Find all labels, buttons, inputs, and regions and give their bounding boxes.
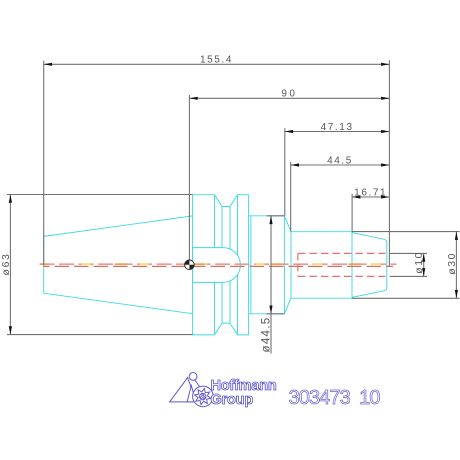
svg-text:16.71: 16.71 [354, 187, 387, 198]
svg-text:ø10: ø10 [413, 251, 425, 274]
svg-text:ø63: ø63 [0, 253, 12, 276]
svg-text:44.5: 44.5 [327, 155, 353, 166]
svg-text:ø30: ø30 [446, 252, 458, 275]
svg-text:ø44.5: ø44.5 [261, 317, 273, 353]
svg-text:Group: Group [211, 392, 254, 408]
svg-text:303473 10: 303473 10 [289, 387, 381, 409]
svg-text:155.4: 155.4 [200, 55, 233, 66]
svg-text:47.13: 47.13 [321, 122, 354, 133]
svg-text:90: 90 [281, 89, 297, 100]
